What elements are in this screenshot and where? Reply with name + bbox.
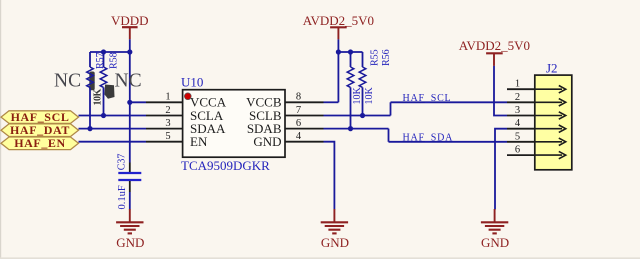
pin 3 stub bbox=[146, 128, 183, 130]
wire HAF_DAT to SDAA bbox=[79, 128, 147, 130]
svg-text:R55: R55 bbox=[370, 49, 381, 66]
power AVDD2_5V0 right bbox=[459, 38, 530, 66]
pin 5 stub bbox=[146, 141, 183, 143]
wire AVDD stem bbox=[337, 39, 339, 102]
svg-text:5: 5 bbox=[515, 131, 520, 142]
pin 4 stub bbox=[285, 141, 324, 143]
svg-text:2: 2 bbox=[165, 105, 170, 116]
svg-text:R56: R56 bbox=[381, 49, 392, 66]
svg-text:NC: NC bbox=[115, 70, 142, 91]
node junction R58/SCL bbox=[101, 113, 106, 118]
node junction R57/DAT bbox=[87, 126, 92, 131]
wire VDDD rail bbox=[90, 51, 130, 53]
ground GND right bbox=[481, 209, 509, 250]
node junction R55/SDAB bbox=[348, 126, 353, 131]
svg-text:C37: C37 bbox=[117, 154, 128, 171]
wire chip GND pin bbox=[324, 142, 335, 210]
svg-text:6: 6 bbox=[296, 118, 301, 129]
wire SDAB row bbox=[324, 128, 389, 130]
value blob (R58, dark) bbox=[105, 85, 115, 99]
svg-text:3: 3 bbox=[515, 105, 520, 116]
svg-text:0.1uF: 0.1uF bbox=[117, 185, 128, 209]
svg-text:VDDD: VDDD bbox=[111, 13, 149, 28]
svg-text:HAF_EN: HAF_EN bbox=[14, 136, 66, 150]
svg-text:GND: GND bbox=[481, 235, 509, 250]
wire HAF_SCL to SCLA bbox=[79, 115, 147, 117]
svg-text:NC: NC bbox=[54, 70, 81, 91]
node junction rail/R55 bbox=[348, 49, 353, 54]
svg-text:TCA9509DGKR: TCA9509DGKR bbox=[181, 158, 270, 173]
power AVDD2_5V0 left bbox=[303, 13, 374, 39]
wire C37 to GND bbox=[129, 192, 131, 210]
node junction stem/rail bbox=[336, 49, 341, 54]
svg-text:HAF_SDA: HAF_SDA bbox=[403, 132, 454, 143]
wire HAF_SDA net bbox=[389, 141, 508, 143]
svg-text:EN: EN bbox=[190, 134, 208, 149]
resistor R55 bbox=[347, 52, 354, 129]
wire SDA jog down bbox=[388, 129, 390, 142]
wire VDDD stem to rail bbox=[129, 39, 131, 52]
svg-text:4: 4 bbox=[296, 131, 302, 142]
svg-text:GND: GND bbox=[321, 235, 349, 250]
J2 pin 1 stub bbox=[507, 88, 535, 90]
J2 pin 4 stub bbox=[507, 128, 535, 130]
resistor R57 bbox=[87, 52, 94, 129]
svg-text:J2: J2 bbox=[546, 60, 558, 75]
ground GND middle bbox=[321, 209, 349, 250]
svg-text:1: 1 bbox=[165, 92, 170, 103]
wire SCLB row bbox=[324, 115, 391, 117]
svg-text:3: 3 bbox=[165, 118, 170, 129]
J2 pin 3 stub bbox=[507, 115, 535, 117]
power VDDD bbox=[111, 13, 149, 39]
node junction R56/SCLB bbox=[360, 113, 365, 118]
svg-text:HAF_DAT: HAF_DAT bbox=[10, 123, 70, 137]
wire J2 pin4 to GND bbox=[495, 129, 507, 210]
value mark dark (on R57 body) bbox=[89, 72, 94, 91]
wire HAF_SCL net bbox=[391, 101, 508, 103]
wire HAF_EN to EN bbox=[79, 141, 147, 143]
svg-text:HAF_SCL: HAF_SCL bbox=[11, 110, 70, 124]
J2 pin 2 stub bbox=[507, 101, 535, 103]
J2 arrow pin 5 bbox=[535, 138, 566, 145]
connector body J2 bbox=[535, 75, 572, 170]
node junction VCCA wire bbox=[127, 100, 132, 105]
pin 1 stub bbox=[146, 101, 183, 103]
svg-text:U10: U10 bbox=[181, 75, 203, 90]
svg-text:AVDD2_5V0: AVDD2_5V0 bbox=[303, 13, 374, 28]
svg-text:R58: R58 bbox=[108, 52, 119, 69]
svg-text:AVDD2_5V0: AVDD2_5V0 bbox=[459, 38, 530, 53]
svg-text:5: 5 bbox=[165, 131, 170, 142]
J2 arrow pin 4 bbox=[535, 125, 566, 132]
J2 arrow pin 1 bbox=[535, 86, 566, 93]
capacitor C37 bbox=[118, 163, 141, 193]
pin1 marker dot bbox=[184, 93, 191, 100]
port HAF_EN bbox=[1, 136, 79, 150]
pin 2 stub bbox=[146, 115, 183, 117]
svg-text:GND: GND bbox=[116, 235, 144, 250]
node junction rail/R58 bbox=[101, 49, 106, 54]
node junction rail/stem bbox=[127, 49, 132, 54]
ground GND left bbox=[116, 209, 144, 250]
IC body U10 bbox=[183, 90, 285, 158]
resistor R56 bbox=[359, 52, 366, 116]
J2 arrow pin 3 bbox=[535, 112, 566, 119]
svg-text:10K: 10K bbox=[92, 89, 103, 106]
sheet left edge bbox=[0, 0, 1, 259]
pin 8 stub bbox=[285, 101, 324, 103]
J2 pin 6 stub bbox=[507, 154, 535, 156]
svg-text:1: 1 bbox=[515, 79, 520, 90]
wire VCCB to AVDD bbox=[324, 101, 339, 103]
J2 arrow pin 2 bbox=[535, 99, 566, 106]
svg-text:8: 8 bbox=[296, 92, 301, 103]
J2 pin 5 stub bbox=[507, 141, 535, 143]
svg-text:GND: GND bbox=[253, 134, 281, 149]
wire SCL jog up bbox=[390, 102, 392, 115]
svg-text:2: 2 bbox=[515, 92, 520, 103]
svg-text:7: 7 bbox=[296, 105, 301, 116]
J2 arrow pin 6 bbox=[535, 151, 566, 158]
svg-text:10K: 10K bbox=[352, 87, 363, 105]
svg-text:4: 4 bbox=[515, 118, 521, 129]
pin 6 stub bbox=[285, 128, 324, 130]
port HAF_DAT bbox=[1, 123, 79, 137]
resistor R58 bbox=[100, 52, 107, 116]
svg-text:6: 6 bbox=[515, 145, 520, 156]
wire VCCA row bbox=[130, 101, 146, 103]
sheet bottom edge bbox=[0, 257, 640, 259]
svg-text:HAF_SCL: HAF_SCL bbox=[403, 93, 452, 104]
wire AVDD to J2 pin3 bbox=[494, 66, 507, 116]
pin 7 stub bbox=[285, 115, 324, 117]
svg-text:10K: 10K bbox=[364, 87, 375, 105]
port HAF_SCL bbox=[1, 110, 79, 124]
wire AVDD rail bbox=[338, 51, 362, 53]
wire VDDD vertical to VCCA and C37 bbox=[129, 52, 131, 163]
